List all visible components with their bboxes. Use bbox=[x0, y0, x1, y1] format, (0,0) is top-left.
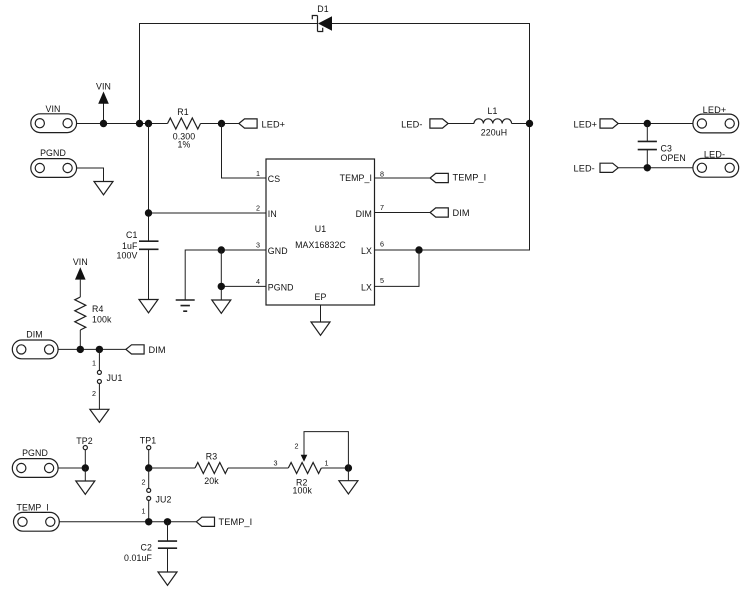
junction dot LX bbox=[415, 246, 422, 253]
svg-text:1%: 1% bbox=[178, 140, 191, 150]
svg-text:TEMP_I: TEMP_I bbox=[17, 503, 49, 513]
capacitor C2 bbox=[124, 522, 177, 572]
junction dot TP2 bbox=[82, 464, 89, 471]
svg-text:TP2: TP2 bbox=[76, 436, 92, 446]
resistor R1 bbox=[168, 107, 201, 150]
wire TEMP_I pin8 stub bbox=[375, 177, 431, 179]
ground below C2 bbox=[158, 572, 177, 585]
wire LED- row bbox=[618, 167, 693, 169]
resistor R4 bbox=[75, 297, 112, 330]
svg-text:6: 6 bbox=[380, 240, 384, 249]
svg-text:LED+: LED+ bbox=[703, 105, 727, 115]
junction dot C2 bbox=[164, 518, 171, 525]
svg-text:DIM: DIM bbox=[149, 345, 166, 355]
svg-text:2: 2 bbox=[295, 442, 299, 451]
capacitor C1 bbox=[117, 230, 159, 261]
svg-text:PGND: PGND bbox=[22, 448, 48, 458]
junction dot top-loop bbox=[136, 120, 143, 127]
svg-text:TP1: TP1 bbox=[140, 436, 156, 446]
diode D1 bbox=[312, 4, 340, 32]
pot wiper arrow bbox=[301, 455, 308, 462]
ground below C1 bbox=[139, 300, 158, 313]
IC U1 MAX16832C bbox=[266, 159, 375, 305]
wire TEMP_I row bbox=[59, 521, 196, 523]
junction dot C3 bottom bbox=[644, 164, 651, 171]
svg-text:OPEN: OPEN bbox=[661, 153, 686, 163]
svg-text:JU1: JU1 bbox=[107, 373, 123, 383]
test point TP1 bbox=[140, 436, 156, 469]
power flag VIN lower bbox=[73, 257, 88, 297]
svg-text:1uF: 1uF bbox=[122, 241, 138, 251]
wire LX pin5 stub bbox=[375, 250, 420, 286]
net tag TEMP_I pin8 bbox=[430, 173, 486, 183]
net tag DIM pin7 bbox=[430, 208, 470, 218]
svg-text:LED+: LED+ bbox=[574, 119, 598, 129]
wire R4 to DIM row bbox=[79, 330, 81, 349]
wire GND to PGND branch bbox=[220, 250, 222, 300]
junction dot L1 rail bbox=[526, 120, 533, 127]
svg-text:JU2: JU2 bbox=[156, 495, 172, 505]
connector J LED- bbox=[693, 149, 739, 177]
wire LED+ row bbox=[618, 123, 693, 125]
potentiometer R2 bbox=[288, 463, 321, 496]
wire top loop left segment bbox=[140, 24, 318, 124]
wire R2 junction to ground bbox=[347, 468, 349, 481]
junction dot R4/DIM bbox=[77, 346, 84, 353]
junction dot JU1 bbox=[96, 346, 103, 353]
ground below R2 bbox=[339, 481, 358, 494]
svg-text:1: 1 bbox=[325, 459, 329, 468]
ground below EP bbox=[311, 322, 330, 335]
wire IN stub bbox=[149, 212, 267, 214]
wire TP1 to R3 bbox=[149, 467, 195, 469]
svg-text:DIM: DIM bbox=[453, 208, 470, 218]
wire DIM row bbox=[58, 348, 126, 350]
svg-text:VIN: VIN bbox=[73, 257, 88, 267]
wire GND stub bbox=[185, 250, 266, 300]
svg-text:2: 2 bbox=[256, 204, 260, 213]
wire R1 to LED+ tag bbox=[201, 123, 240, 125]
junction dot IN/C1 bbox=[145, 209, 152, 216]
svg-text:L1: L1 bbox=[488, 106, 498, 116]
svg-text:C2: C2 bbox=[141, 543, 152, 553]
svg-text:C3: C3 bbox=[661, 144, 672, 154]
earth ground symbol bbox=[176, 300, 195, 311]
svg-text:4: 4 bbox=[256, 277, 260, 286]
svg-text:100k: 100k bbox=[92, 315, 112, 325]
jumper JU1 bbox=[92, 349, 122, 409]
net tag LED- output bbox=[574, 163, 619, 173]
jumper JU2 bbox=[142, 468, 172, 522]
svg-text:LX: LX bbox=[361, 246, 372, 256]
svg-text:CS: CS bbox=[268, 174, 280, 184]
svg-text:EP: EP bbox=[315, 292, 327, 302]
svg-text:R4: R4 bbox=[92, 304, 103, 314]
svg-text:0.01uF: 0.01uF bbox=[124, 553, 153, 563]
net tag LED+ output bbox=[574, 119, 619, 129]
svg-text:LED-: LED- bbox=[574, 164, 595, 174]
svg-text:PGND: PGND bbox=[268, 283, 294, 293]
ground below TP2 bbox=[76, 481, 95, 494]
wire DIM pin7 stub bbox=[375, 212, 431, 214]
wire top loop right segment bbox=[332, 24, 530, 124]
svg-text:TEMP_I: TEMP_I bbox=[340, 173, 372, 183]
wire R2 to junction bbox=[321, 467, 348, 469]
svg-text:1: 1 bbox=[256, 169, 260, 178]
svg-text:GND: GND bbox=[268, 246, 288, 256]
junction dot CS branch bbox=[218, 120, 225, 127]
svg-text:100V: 100V bbox=[117, 251, 138, 261]
svg-text:7: 7 bbox=[380, 203, 384, 212]
svg-text:5: 5 bbox=[380, 276, 384, 285]
svg-text:D1: D1 bbox=[317, 4, 328, 14]
junction dot PGND bbox=[218, 283, 225, 290]
svg-text:3: 3 bbox=[256, 241, 260, 250]
connector J VIN bbox=[31, 104, 77, 133]
connector J LED+ bbox=[693, 105, 739, 133]
svg-text:C1: C1 bbox=[126, 230, 137, 240]
svg-text:DIM: DIM bbox=[356, 209, 372, 219]
svg-text:100k: 100k bbox=[293, 486, 313, 496]
wire R2 wiper loop bbox=[304, 432, 348, 468]
capacitor C3 bbox=[638, 124, 686, 168]
wire TP2 to ground bbox=[84, 468, 86, 481]
net tag LED+ bbox=[239, 119, 285, 129]
wire tag to L1 bbox=[448, 123, 474, 125]
junction dot C1 branch bbox=[145, 120, 152, 127]
svg-text:LX: LX bbox=[361, 283, 372, 293]
EP pad stub bbox=[320, 305, 322, 322]
svg-text:TEMP_I: TEMP_I bbox=[219, 517, 253, 527]
junction dot R2 bbox=[345, 464, 352, 471]
wire CS stub bbox=[222, 124, 267, 179]
svg-text:MAX16832C: MAX16832C bbox=[295, 240, 346, 250]
wire PGND to TP2 bbox=[58, 467, 85, 469]
junction dot GND branch bbox=[218, 246, 225, 253]
svg-text:2: 2 bbox=[142, 478, 146, 487]
svg-text:3: 3 bbox=[274, 459, 278, 468]
junction dot C3 top bbox=[644, 120, 651, 127]
svg-text:8: 8 bbox=[380, 169, 384, 178]
svg-text:220uH: 220uH bbox=[481, 128, 507, 138]
wire R3 to R2 bbox=[228, 467, 288, 469]
svg-text:R3: R3 bbox=[206, 452, 217, 462]
test point TP2 bbox=[76, 436, 92, 468]
svg-text:U1: U1 bbox=[315, 224, 326, 234]
svg-text:2: 2 bbox=[92, 389, 96, 398]
junction dot TP1 bbox=[145, 464, 152, 471]
resistor R3 bbox=[195, 452, 228, 487]
ground below PGND connector bbox=[94, 182, 113, 195]
wire C1 vertical bbox=[148, 124, 150, 242]
net tag DIM mid bbox=[126, 345, 166, 355]
wire PGND stub bbox=[221, 285, 266, 287]
wire LX pin6 rail bbox=[375, 124, 530, 251]
svg-text:R1: R1 bbox=[177, 107, 188, 117]
connector J PGND bottom bbox=[12, 448, 58, 477]
wire VIN rail bbox=[77, 123, 168, 125]
svg-text:20k: 20k bbox=[204, 476, 219, 486]
junction dot JU2 bottom bbox=[145, 518, 152, 525]
ground below pin4 bbox=[212, 300, 231, 313]
svg-text:PGND: PGND bbox=[40, 148, 66, 158]
power flag VIN bbox=[96, 82, 111, 124]
connector J DIM bbox=[12, 330, 58, 359]
svg-text:TEMP_I: TEMP_I bbox=[453, 173, 487, 183]
ground below JU1 bbox=[90, 409, 109, 422]
connector J TEMP_I bbox=[14, 503, 60, 532]
svg-text:LED+: LED+ bbox=[262, 119, 286, 129]
connector J PGND top bbox=[31, 148, 77, 177]
inductor L1 bbox=[474, 106, 512, 138]
wire C1 to ground bbox=[148, 249, 150, 299]
wire L1 to rail bbox=[512, 123, 530, 125]
wire PGND to ground bbox=[77, 168, 104, 182]
svg-text:LED-: LED- bbox=[401, 119, 422, 129]
svg-text:VIN: VIN bbox=[46, 104, 61, 114]
net tag LED- at L1 bbox=[401, 119, 448, 129]
svg-text:VIN: VIN bbox=[96, 82, 111, 92]
svg-text:LED-: LED- bbox=[704, 149, 725, 159]
junction dot VIN/arrow bbox=[100, 120, 107, 127]
svg-text:IN: IN bbox=[268, 209, 277, 219]
svg-text:1: 1 bbox=[142, 507, 146, 516]
net tag TEMP_I bottom bbox=[196, 517, 252, 527]
svg-text:1: 1 bbox=[92, 359, 96, 368]
svg-text:DIM: DIM bbox=[26, 330, 42, 340]
